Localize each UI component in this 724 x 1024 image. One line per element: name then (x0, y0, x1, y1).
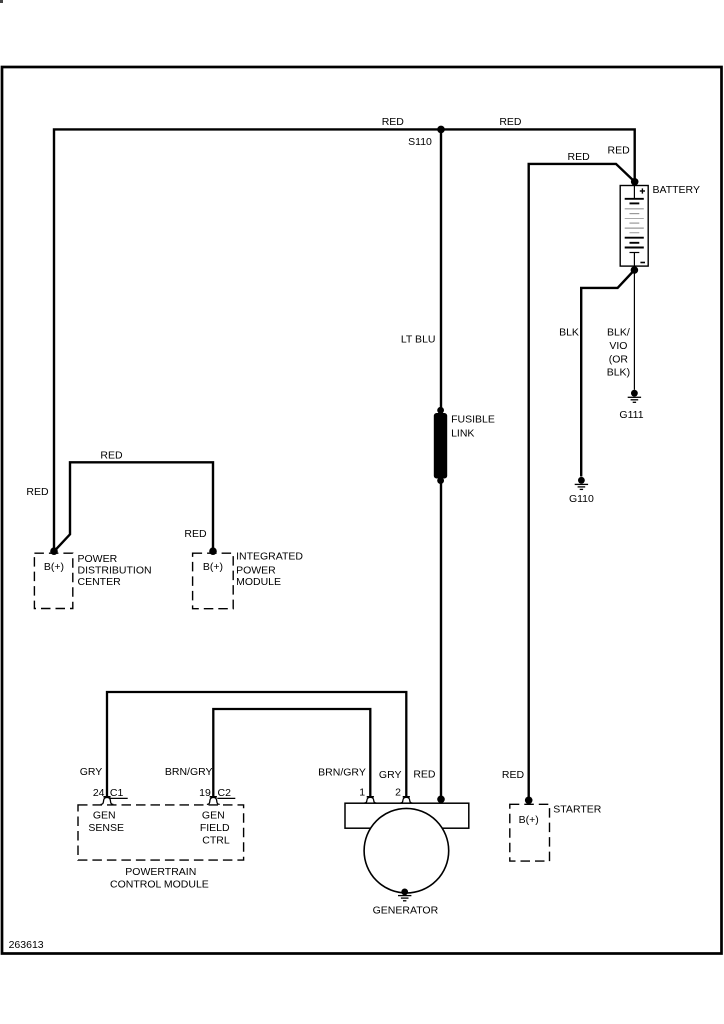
svg-text:BLK/: BLK/ (607, 326, 630, 338)
svg-text:LT BLU: LT BLU (401, 334, 436, 346)
svg-text:FIELD: FIELD (200, 822, 230, 834)
svg-text:CONTROL MODULE: CONTROL MODULE (110, 879, 209, 891)
label POWERTRAIN CONTROL MODULE (110, 866, 209, 890)
wire: BLK battery negative to G110 (581, 270, 634, 477)
svg-text:VIO: VIO (609, 340, 627, 352)
svg-text:STARTER: STARTER (553, 804, 601, 816)
svg-text:BRN/GRY: BRN/GRY (318, 767, 366, 779)
svg-text:B(+): B(+) (44, 561, 64, 573)
generator case ground (398, 889, 411, 901)
label GEN FIELD CTRL (200, 810, 230, 847)
integrated power module box (193, 553, 234, 609)
node PDC B(+) terminal (50, 547, 58, 555)
svg-text:RED: RED (413, 769, 436, 781)
label FUSIBLE LINK (451, 414, 495, 440)
node S110 (437, 126, 445, 134)
svg-text:RED: RED (26, 486, 49, 498)
generator body (364, 808, 449, 893)
svg-text:DISTRIBUTION: DISTRIBUTION (78, 565, 152, 577)
node battery negative (631, 266, 639, 274)
svg-text:CTRL: CTRL (202, 834, 230, 846)
wire: GRY from PCM pin 24 to generator pin 2 (107, 692, 406, 797)
wire: RED starter feed (529, 164, 635, 801)
battery B1 (620, 186, 648, 267)
svg-text:POWER: POWER (236, 564, 276, 576)
starter box (510, 804, 550, 861)
wire: main RED feed (left vertical, top horizontal, down to battery) (54, 129, 635, 551)
svg-text:C1: C1 (110, 787, 124, 799)
svg-text:BRN/GRY: BRN/GRY (165, 766, 213, 778)
svg-text:BLK: BLK (559, 326, 579, 338)
label INTEGRATED POWER MODULE (236, 550, 303, 588)
svg-text:G111: G111 (619, 409, 643, 421)
ground G110 (575, 477, 588, 490)
svg-text:POWER: POWER (78, 553, 118, 565)
svg-text:GEN: GEN (202, 810, 225, 822)
fusible link F1 (434, 407, 447, 484)
node IPM B(+) terminal (209, 547, 217, 555)
svg-text:RED: RED (100, 450, 123, 462)
svg-text:RED: RED (184, 528, 207, 540)
svg-text:RED: RED (502, 769, 525, 781)
svg-text:GRY: GRY (80, 766, 103, 778)
svg-text:BLK): BLK) (607, 367, 630, 379)
svg-text:1: 1 (359, 786, 365, 798)
wire: S110 branch down to generator (LT BLU / RED) (440, 129, 442, 803)
svg-text:GEN: GEN (93, 810, 116, 822)
svg-text:POWERTRAIN: POWERTRAIN (125, 866, 196, 878)
svg-text:24: 24 (93, 787, 105, 799)
svg-text:MODULE: MODULE (236, 576, 281, 588)
label BLK/VIO (OR BLK) (607, 326, 630, 378)
svg-text:G110: G110 (569, 493, 594, 505)
svg-text:RED: RED (568, 151, 591, 163)
svg-text:LINK: LINK (451, 427, 474, 439)
ground G111 (628, 390, 641, 402)
corner artifact (0, 0, 3, 3)
svg-text:GRY: GRY (379, 769, 402, 781)
pin 19 connector (207, 797, 220, 805)
svg-text:BATTERY: BATTERY (653, 184, 700, 196)
node battery positive (631, 178, 639, 186)
svg-text:RED: RED (499, 116, 522, 128)
pin 24 connector (101, 797, 114, 805)
svg-text:263613: 263613 (9, 939, 44, 951)
pin 1 connector (364, 797, 377, 803)
svg-text:SENSE: SENSE (88, 822, 124, 834)
svg-text:S110: S110 (408, 136, 432, 148)
wire: RED to PDC and IPM (54, 462, 213, 551)
pin 2 connector (400, 797, 413, 803)
svg-text:B(+): B(+) (519, 814, 539, 826)
wire: BRN/GRY from PCM pin 19 to generator pin 1 (213, 709, 370, 797)
svg-text:FUSIBLE: FUSIBLE (451, 414, 495, 426)
label GEN SENSE (88, 810, 124, 834)
label C1 underlined (110, 787, 128, 799)
svg-text:GENERATOR: GENERATOR (373, 905, 439, 917)
svg-text:RED: RED (382, 116, 405, 128)
svg-text:RED: RED (608, 145, 631, 157)
power distribution center box (34, 553, 72, 608)
wire: BLK/VIO battery negative to G111 (633, 270, 635, 390)
label POWER DISTRIBUTION CENTER (78, 553, 152, 588)
label C2 underlined (217, 787, 235, 799)
svg-text:INTEGRATED: INTEGRATED (236, 550, 303, 562)
svg-text:CENTER: CENTER (78, 576, 122, 588)
node starter B(+) terminal (525, 797, 533, 805)
powertrain control module box (78, 805, 244, 860)
generator regulator box (345, 803, 469, 828)
svg-text:B(+): B(+) (203, 561, 223, 573)
svg-text:2: 2 (395, 786, 401, 798)
svg-text:C2: C2 (218, 787, 232, 799)
svg-text:(OR: (OR (609, 353, 629, 365)
node generator B+ (437, 796, 445, 804)
svg-text:19: 19 (199, 787, 211, 799)
